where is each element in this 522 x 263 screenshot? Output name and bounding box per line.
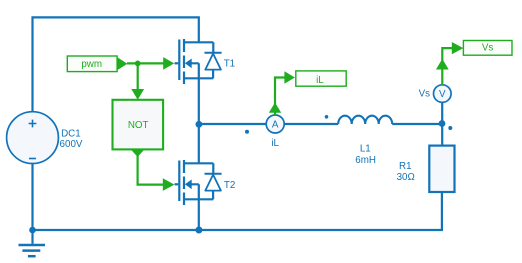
svg-text:V: V — [439, 89, 446, 100]
svg-text:DC1: DC1 — [61, 128, 81, 139]
svg-text:30Ω: 30Ω — [397, 172, 415, 183]
svg-text:L1: L1 — [360, 144, 371, 155]
svg-text:T2: T2 — [224, 180, 235, 191]
svg-text:iL: iL — [316, 75, 324, 86]
svg-text:600V: 600V — [60, 139, 83, 150]
svg-text:iL: iL — [271, 138, 279, 149]
svg-text:6mH: 6mH — [355, 155, 376, 166]
svg-text:Vs: Vs — [419, 89, 431, 100]
svg-text:pwm: pwm — [81, 59, 102, 70]
svg-text:NOT: NOT — [128, 120, 149, 131]
svg-text:R1: R1 — [399, 161, 412, 172]
svg-text:T1: T1 — [224, 58, 235, 69]
svg-text:A: A — [272, 120, 279, 131]
svg-text:Vs: Vs — [482, 42, 494, 53]
